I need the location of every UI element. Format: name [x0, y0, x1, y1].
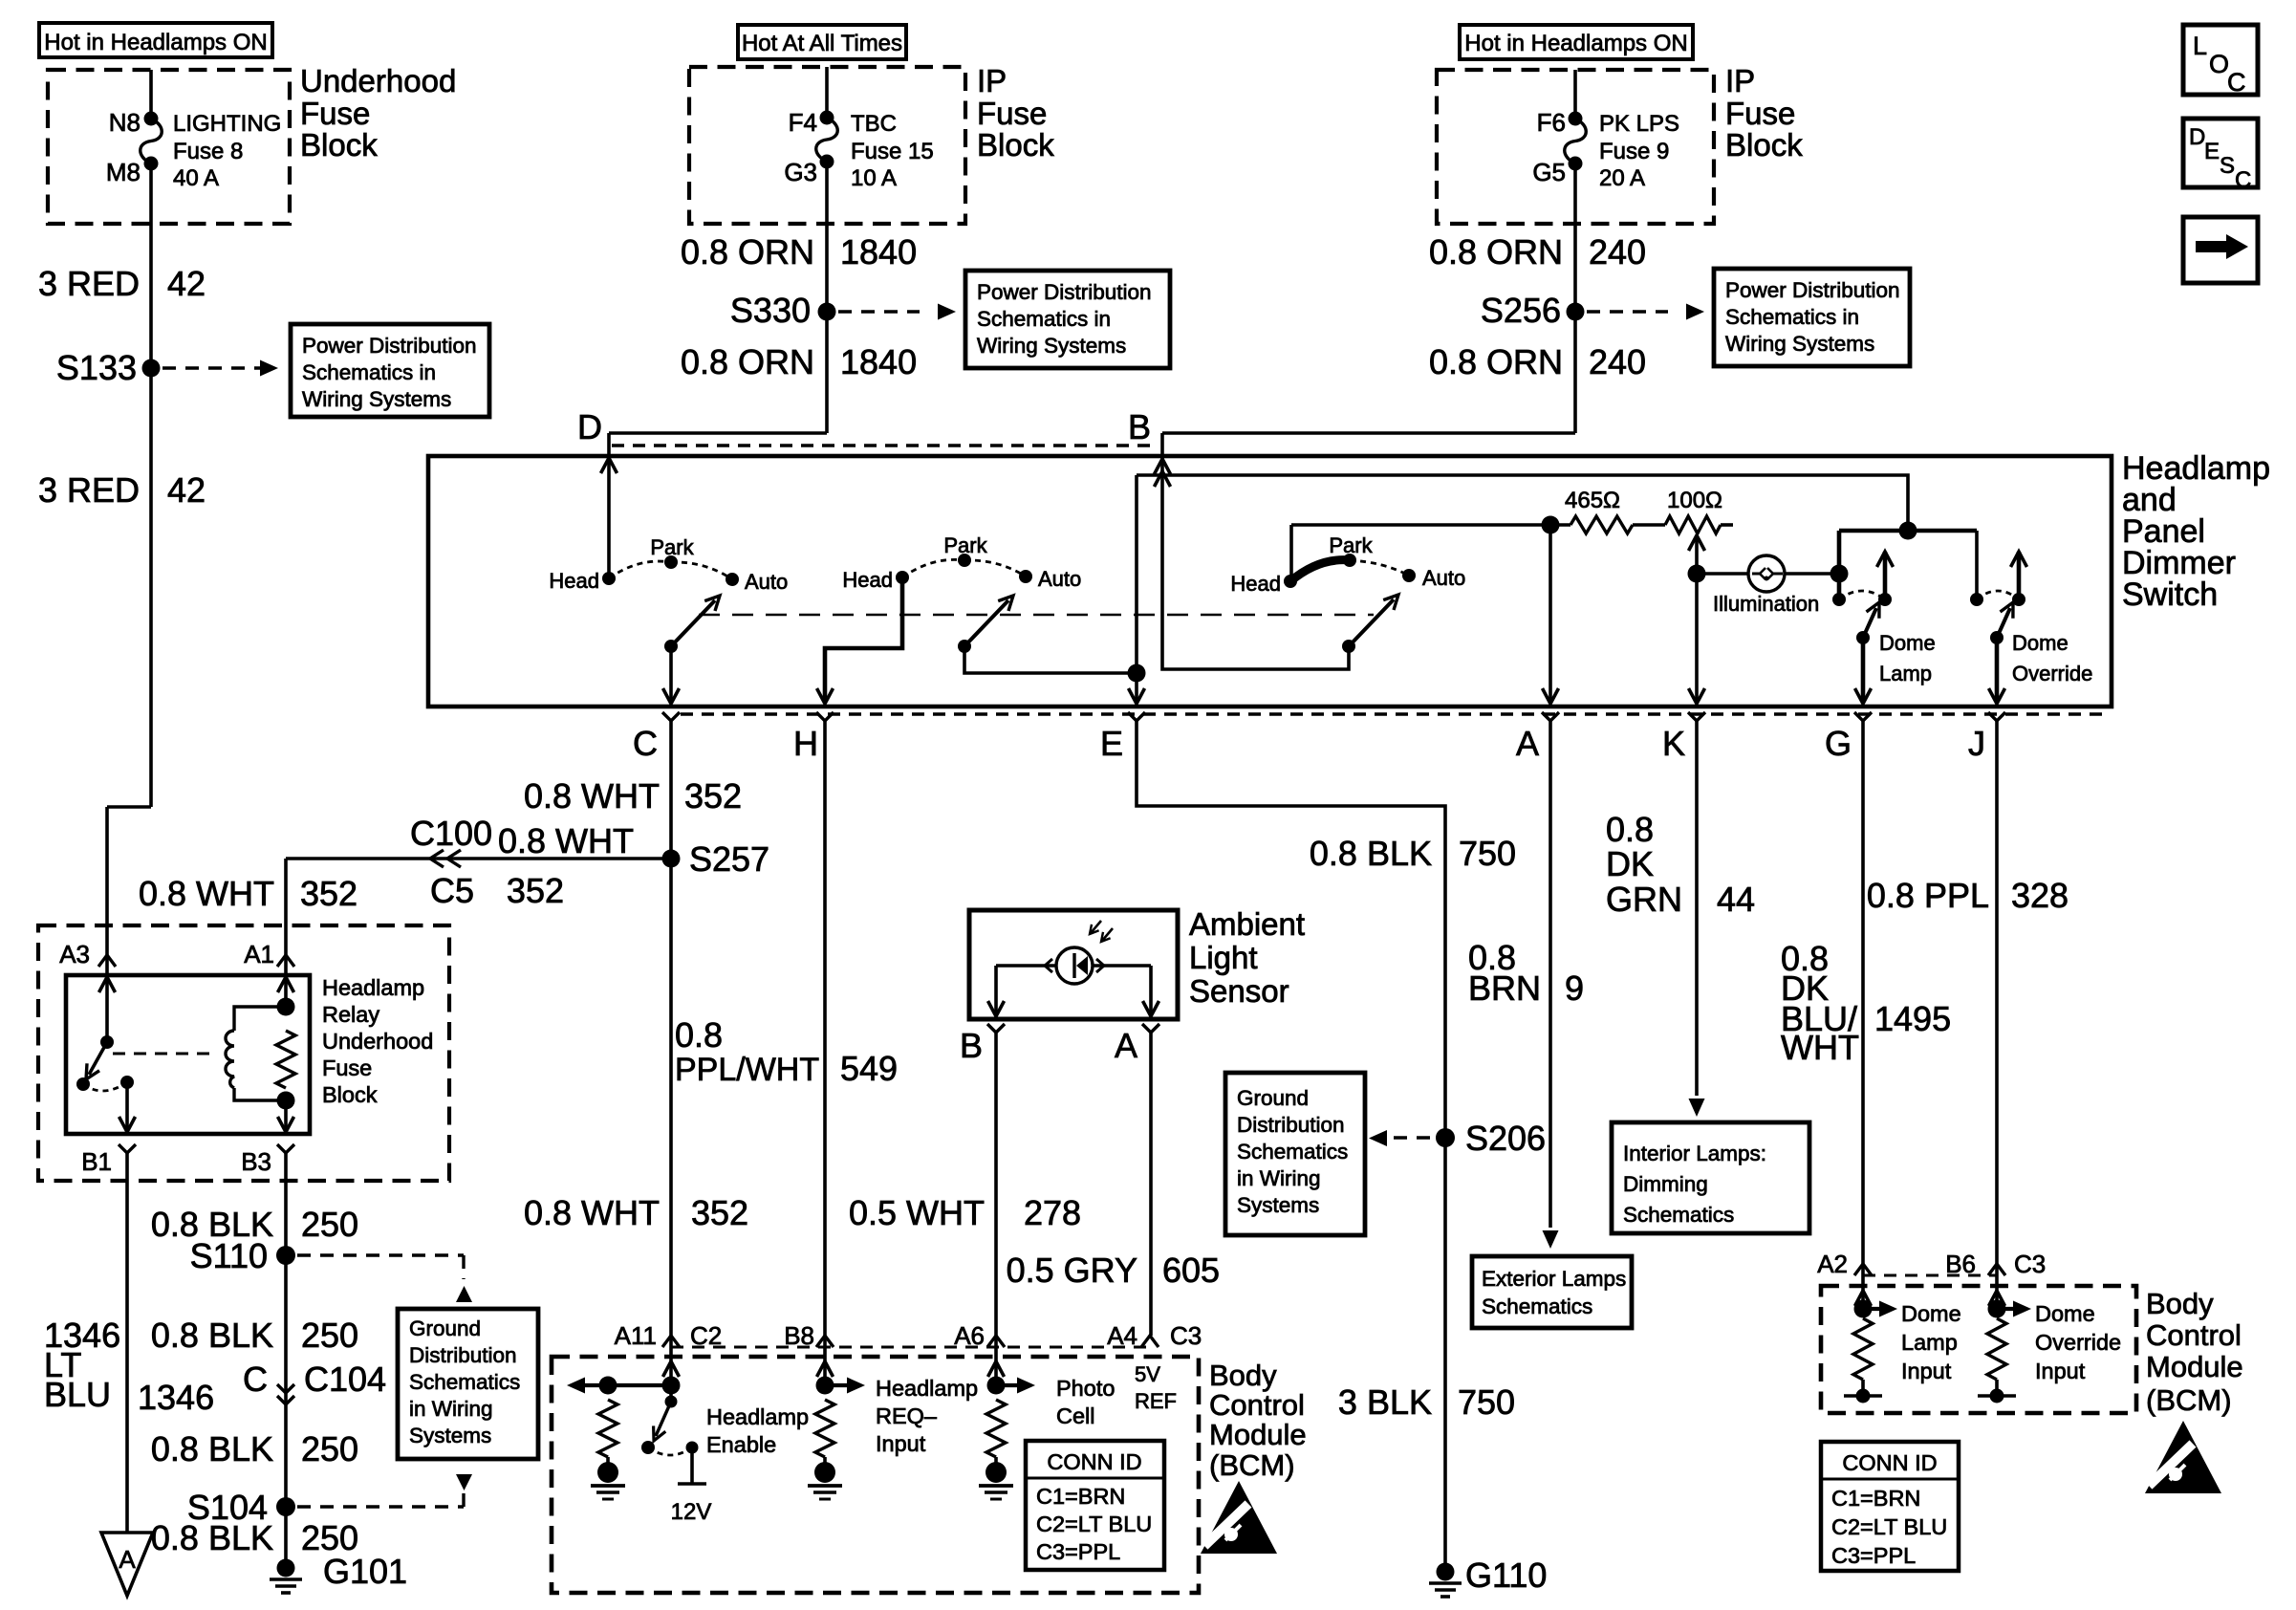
svg-text:B: B [960, 1026, 983, 1065]
svg-text:L: L [2193, 32, 2207, 60]
svg-text:M8: M8 [106, 158, 141, 186]
svg-text:S206: S206 [1465, 1119, 1546, 1158]
svg-text:240: 240 [1589, 232, 1646, 272]
svg-text:605: 605 [1162, 1251, 1220, 1290]
svg-text:C3=PPL: C3=PPL [1831, 1543, 1916, 1568]
svg-text:10 A: 10 A [851, 165, 897, 191]
svg-text:C: C [243, 1360, 268, 1399]
svg-text:S133: S133 [56, 348, 137, 387]
svg-text:Wiring Systems: Wiring Systems [302, 387, 451, 411]
svg-text:Head: Head [842, 568, 893, 592]
svg-text:A: A [1516, 724, 1539, 763]
svg-text:N8: N8 [109, 108, 141, 137]
svg-text:Control: Control [1209, 1388, 1305, 1422]
svg-text:250: 250 [301, 1205, 358, 1244]
svg-text:0.8 ORN: 0.8 ORN [1429, 232, 1563, 272]
svg-text:0.8: 0.8 [675, 1015, 723, 1055]
svg-text:K: K [1662, 724, 1685, 763]
svg-text:Park: Park [650, 535, 694, 559]
svg-text:O: O [2209, 50, 2229, 78]
svg-text:REQ–: REQ– [876, 1403, 938, 1428]
svg-text:S: S [2220, 153, 2235, 179]
svg-text:100Ω: 100Ω [1667, 488, 1722, 513]
svg-text:20 A: 20 A [1599, 165, 1645, 191]
svg-text:B3: B3 [241, 1147, 271, 1176]
svg-text:Underhood: Underhood [300, 63, 456, 98]
svg-text:Fuse: Fuse [300, 96, 370, 131]
svg-text:TBC: TBC [851, 111, 897, 137]
svg-text:C3: C3 [2014, 1250, 2046, 1278]
svg-text:PPL/WHT: PPL/WHT [675, 1052, 819, 1088]
svg-text:Hot in Headlamps ON: Hot in Headlamps ON [1464, 31, 1687, 56]
svg-text:J: J [1968, 724, 1985, 763]
svg-text:Control: Control [2146, 1318, 2242, 1352]
svg-text:465Ω: 465Ω [1565, 488, 1620, 513]
svg-text:Ambient: Ambient [1189, 906, 1305, 942]
svg-text:S257: S257 [689, 839, 769, 879]
svg-text:Ground: Ground [409, 1316, 481, 1340]
svg-text:Dome: Dome [2012, 631, 2069, 655]
svg-text:549: 549 [840, 1049, 898, 1088]
svg-text:G: G [1825, 724, 1852, 763]
svg-text:PK LPS: PK LPS [1599, 111, 1679, 137]
svg-text:S110: S110 [190, 1236, 268, 1275]
svg-text:1495: 1495 [1874, 999, 1951, 1038]
svg-text:C5: C5 [430, 871, 474, 910]
svg-text:Auto: Auto [745, 570, 788, 594]
svg-text:0.8 WHT: 0.8 WHT [498, 821, 634, 860]
svg-text:Ground: Ground [1237, 1086, 1309, 1110]
svg-text:Input: Input [2035, 1359, 2086, 1383]
svg-text:Headlamp: Headlamp [876, 1376, 978, 1401]
svg-text:42: 42 [167, 264, 206, 303]
svg-text:5V: 5V [1135, 1362, 1160, 1386]
svg-text:0.5 WHT: 0.5 WHT [849, 1193, 985, 1232]
svg-text:E: E [2204, 139, 2220, 164]
svg-text:Fuse 15: Fuse 15 [851, 139, 934, 164]
svg-text:Power Distribution: Power Distribution [977, 280, 1152, 304]
svg-text:Photo: Photo [1056, 1376, 1115, 1401]
svg-text:C: C [2235, 167, 2251, 193]
svg-text:Power Distribution: Power Distribution [302, 334, 477, 358]
svg-text:0.8 ORN: 0.8 ORN [681, 232, 814, 272]
svg-text:Schematics: Schematics [1482, 1295, 1592, 1318]
svg-text:Park: Park [943, 533, 987, 557]
svg-text:3 BLK: 3 BLK [1338, 1382, 1432, 1422]
svg-text:Power Distribution: Power Distribution [1725, 278, 1900, 302]
svg-text:Underhood: Underhood [322, 1029, 433, 1054]
svg-text:Fuse 9: Fuse 9 [1599, 139, 1669, 164]
svg-text:Schematics: Schematics [1623, 1203, 1734, 1227]
svg-text:Schematics in: Schematics in [1725, 305, 1859, 329]
svg-text:Block: Block [300, 127, 378, 163]
svg-text:Auto: Auto [1422, 566, 1465, 590]
svg-text:G110: G110 [1465, 1556, 1547, 1595]
svg-text:40 A: 40 A [173, 165, 219, 191]
svg-text:Block: Block [322, 1082, 378, 1107]
svg-text:(BCM): (BCM) [2146, 1383, 2232, 1417]
svg-text:1346: 1346 [138, 1378, 214, 1417]
svg-text:Input: Input [1901, 1359, 1952, 1383]
svg-text:C3: C3 [1170, 1321, 1202, 1350]
svg-text:REF: REF [1135, 1389, 1177, 1413]
svg-text:42: 42 [167, 470, 206, 510]
svg-text:0.8 ORN: 0.8 ORN [681, 342, 814, 381]
svg-text:0.8 PPL: 0.8 PPL [1867, 876, 1989, 915]
svg-text:Auto: Auto [1038, 567, 1081, 591]
svg-text:A: A [1115, 1026, 1137, 1065]
svg-text:3 RED: 3 RED [38, 470, 140, 510]
svg-text:Schematics: Schematics [1237, 1140, 1348, 1164]
svg-text:1840: 1840 [840, 232, 917, 272]
svg-text:CONN ID: CONN ID [1047, 1449, 1141, 1474]
svg-text:Hot in Headlamps ON: Hot in Headlamps ON [44, 30, 267, 55]
svg-text:0.8 WHT: 0.8 WHT [139, 874, 274, 913]
svg-text:C: C [2227, 68, 2246, 97]
svg-text:750: 750 [1458, 1382, 1515, 1422]
svg-text:Light: Light [1189, 940, 1258, 975]
svg-text:A3: A3 [59, 940, 90, 968]
svg-text:F4: F4 [789, 108, 817, 137]
svg-text:DK: DK [1606, 844, 1654, 883]
svg-text:Override: Override [2012, 662, 2092, 685]
svg-text:G5: G5 [1532, 158, 1566, 186]
svg-text:0.8 BLK: 0.8 BLK [1310, 834, 1432, 873]
svg-text:9: 9 [1565, 968, 1584, 1008]
svg-text:Fuse: Fuse [977, 96, 1047, 131]
svg-text:Schematics: Schematics [409, 1370, 520, 1394]
svg-text:Dimming: Dimming [1623, 1172, 1708, 1196]
svg-text:LIGHTING: LIGHTING [173, 111, 281, 137]
svg-text:Module: Module [2146, 1350, 2243, 1383]
svg-text:Distribution: Distribution [409, 1343, 517, 1367]
svg-text:B: B [1128, 407, 1151, 446]
svg-text:0.8 WHT: 0.8 WHT [524, 776, 660, 816]
svg-text:Dome: Dome [1901, 1301, 1961, 1326]
svg-text:D: D [2189, 124, 2205, 150]
svg-text:Park: Park [1329, 533, 1373, 557]
svg-text:C2=LT BLU: C2=LT BLU [1831, 1514, 1947, 1539]
svg-text:Exterior Lamps: Exterior Lamps [1482, 1267, 1626, 1291]
svg-text:B1: B1 [81, 1147, 112, 1176]
svg-text:Head: Head [1230, 572, 1281, 596]
svg-text:WHT: WHT [1781, 1028, 1859, 1067]
svg-text:Illumination: Illumination [1713, 592, 1819, 616]
svg-text:CONN ID: CONN ID [1842, 1450, 1937, 1475]
svg-text:352: 352 [684, 776, 742, 816]
svg-text:Lamp: Lamp [1879, 662, 1932, 685]
svg-text:250: 250 [301, 1429, 358, 1469]
svg-text:0.8 BLK: 0.8 BLK [151, 1316, 273, 1355]
svg-text:Schematics in: Schematics in [302, 360, 436, 384]
svg-text:BLU: BLU [44, 1375, 111, 1414]
svg-text:Override: Override [2035, 1330, 2121, 1355]
svg-text:Body: Body [1209, 1359, 1277, 1392]
svg-text:0.5 GRY: 0.5 GRY [1007, 1251, 1137, 1290]
svg-text:A11: A11 [615, 1321, 657, 1350]
svg-text:D: D [577, 407, 602, 446]
svg-text:F6: F6 [1537, 108, 1566, 137]
svg-text:44: 44 [1717, 880, 1755, 919]
svg-text:Input: Input [876, 1431, 926, 1456]
svg-text:Fuse 8: Fuse 8 [173, 139, 243, 164]
svg-text:C2=LT BLU: C2=LT BLU [1036, 1512, 1152, 1536]
svg-text:S330: S330 [730, 291, 811, 330]
svg-text:0.8 ORN: 0.8 ORN [1429, 342, 1563, 381]
svg-text:Wiring Systems: Wiring Systems [977, 334, 1126, 358]
svg-text:Headlamp: Headlamp [322, 975, 424, 1000]
svg-text:352: 352 [300, 874, 357, 913]
svg-text:352: 352 [507, 871, 564, 910]
svg-text:H: H [793, 724, 818, 763]
svg-text:(BCM): (BCM) [1209, 1448, 1295, 1482]
svg-text:Switch: Switch [2122, 577, 2218, 613]
svg-text:Block: Block [1725, 127, 1803, 163]
svg-text:Lamp: Lamp [1901, 1330, 1958, 1355]
svg-text:Block: Block [977, 127, 1054, 163]
svg-text:Distribution: Distribution [1237, 1113, 1345, 1137]
svg-text:12V: 12V [671, 1499, 712, 1525]
svg-text:A1: A1 [244, 940, 274, 968]
svg-text:Systems: Systems [409, 1424, 491, 1447]
svg-text:250: 250 [301, 1316, 358, 1355]
svg-text:G3: G3 [784, 158, 817, 186]
svg-text:3 RED: 3 RED [38, 264, 140, 303]
svg-text:Module: Module [1209, 1418, 1307, 1451]
svg-text:IP: IP [1725, 63, 1755, 98]
svg-text:Systems: Systems [1237, 1193, 1319, 1217]
svg-text:IP: IP [977, 63, 1007, 98]
svg-text:750: 750 [1459, 834, 1516, 873]
svg-text:S256: S256 [1481, 291, 1561, 330]
svg-text:0.8 BLK: 0.8 BLK [151, 1518, 273, 1557]
svg-text:Head: Head [549, 569, 599, 593]
svg-text:240: 240 [1589, 342, 1646, 381]
svg-text:Cell: Cell [1056, 1403, 1094, 1428]
svg-text:BRN: BRN [1468, 968, 1541, 1008]
svg-text:Enable: Enable [706, 1432, 776, 1457]
svg-text:C3=PPL: C3=PPL [1036, 1539, 1120, 1564]
svg-text:A2: A2 [1817, 1250, 1848, 1278]
svg-text:C100: C100 [410, 814, 492, 853]
svg-text:in Wiring: in Wiring [409, 1397, 493, 1421]
svg-text:Body: Body [2146, 1287, 2214, 1320]
svg-text:Interior Lamps:: Interior Lamps: [1623, 1142, 1766, 1165]
svg-text:C1=BRN: C1=BRN [1831, 1486, 1920, 1511]
svg-text:C: C [633, 724, 658, 763]
svg-text:328: 328 [2011, 876, 2069, 915]
svg-text:1840: 1840 [840, 342, 917, 381]
svg-text:352: 352 [691, 1193, 748, 1232]
svg-text:Schematics in: Schematics in [977, 307, 1111, 331]
svg-text:278: 278 [1024, 1193, 1081, 1232]
svg-text:C104: C104 [304, 1360, 386, 1399]
svg-text:Wiring Systems: Wiring Systems [1725, 332, 1874, 356]
svg-text:0.8 BLK: 0.8 BLK [151, 1429, 273, 1469]
svg-text:Fuse: Fuse [1725, 96, 1795, 131]
svg-text:A: A [119, 1545, 136, 1574]
svg-text:0.8 WHT: 0.8 WHT [524, 1193, 660, 1232]
svg-text:in Wiring: in Wiring [1237, 1166, 1321, 1190]
svg-text:E: E [1100, 724, 1123, 763]
svg-text:C1=BRN: C1=BRN [1036, 1484, 1125, 1509]
svg-text:Dome: Dome [1879, 631, 1936, 655]
svg-text:Hot At All Times: Hot At All Times [742, 31, 902, 56]
svg-text:0.8: 0.8 [1606, 810, 1654, 849]
svg-text:G101: G101 [323, 1552, 407, 1591]
svg-text:Relay: Relay [322, 1002, 379, 1027]
svg-text:Headlamp: Headlamp [706, 1404, 809, 1429]
svg-text:Sensor: Sensor [1189, 973, 1289, 1009]
svg-text:Fuse: Fuse [322, 1055, 372, 1080]
svg-text:Dome: Dome [2035, 1301, 2095, 1326]
svg-text:GRN: GRN [1606, 880, 1682, 919]
